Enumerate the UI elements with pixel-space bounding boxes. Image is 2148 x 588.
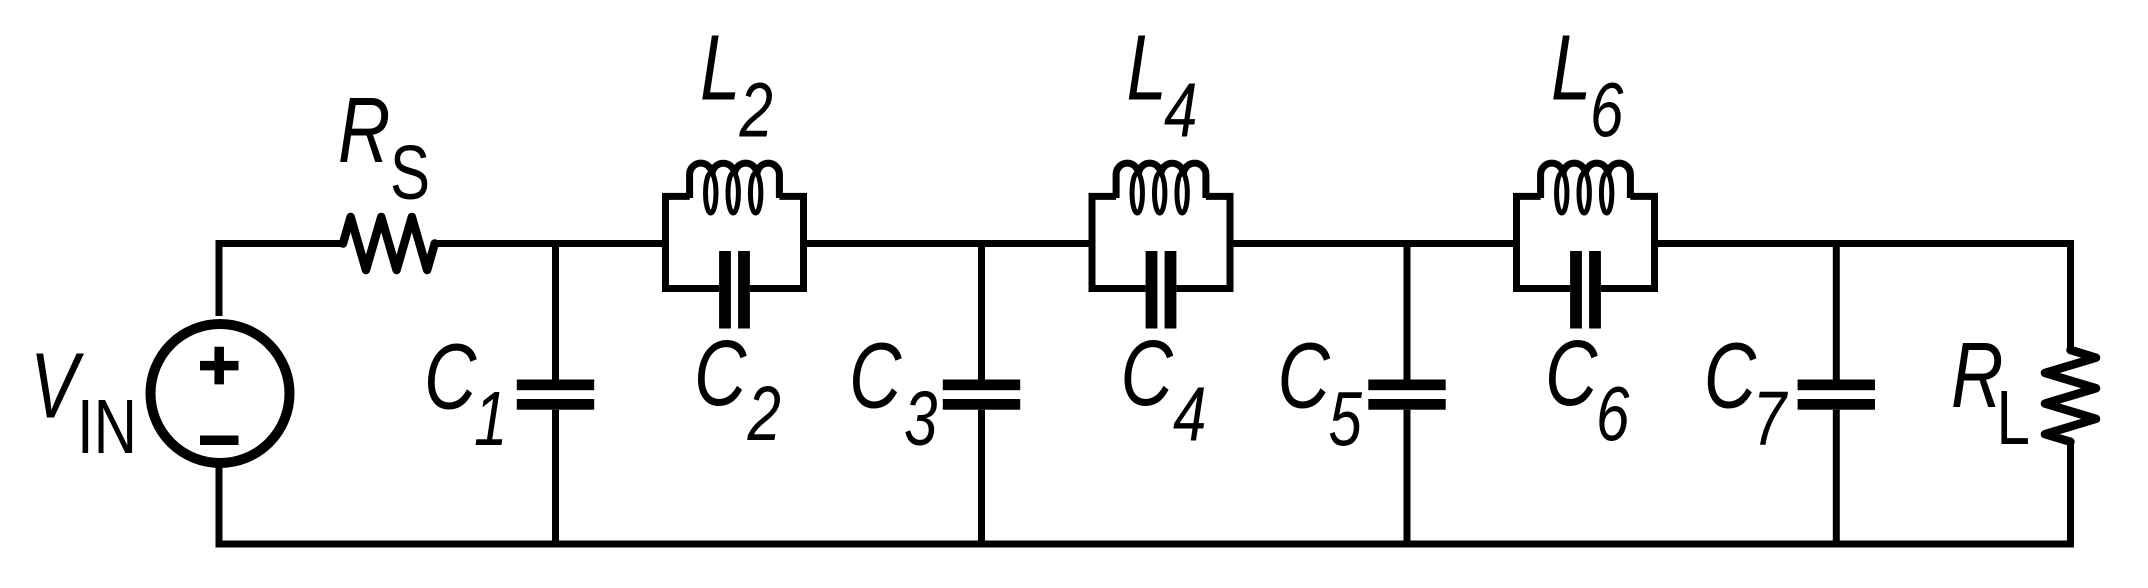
inductor L4 loop 1 (1132, 173, 1142, 213)
inductor L4 loop 2 (1155, 173, 1165, 213)
capacitor C5 plates (1368, 380, 1445, 391)
svg-text:L: L (1551, 16, 1591, 120)
wire top bus segment D (tank2 to tank3 through C5 node) (1230, 240, 1515, 247)
wire bottom bus (216, 541, 2075, 548)
wire top bus segment A (VIN to RS) (219, 244, 343, 317)
capacitor C7 plates (1798, 380, 1875, 391)
svg-text:C: C (849, 324, 902, 428)
svg-text:C: C (694, 321, 747, 425)
svg-text:7: 7 (1753, 375, 1789, 462)
svg-text:S: S (390, 129, 430, 216)
svg-text:6: 6 (1596, 370, 1630, 457)
wire right vertical lower (2067, 442, 2074, 548)
capacitor C2 plates (719, 251, 731, 329)
svg-text:C: C (1121, 321, 1174, 425)
wire top bus segment C (tank1 to tank2 through C3 node) (804, 240, 1093, 247)
capacitor C1 branch wires (552, 240, 559, 548)
svg-text:1: 1 (474, 375, 507, 462)
inductor L4 coil (1116, 163, 1206, 198)
svg-text:4: 4 (1164, 66, 1197, 153)
inductor L2 coil (690, 163, 780, 198)
svg-text:5: 5 (1329, 375, 1363, 462)
svg-text:3: 3 (904, 375, 937, 462)
wire top bus segment E (tank3 to right corner, through C7 node) (1656, 244, 2071, 351)
inductor L6 coil (1541, 163, 1631, 198)
inductor L2 loop 3 (750, 173, 760, 213)
svg-text:C: C (1704, 324, 1757, 428)
capacitor C6 plates (1570, 251, 1582, 329)
svg-text:6: 6 (1590, 66, 1624, 153)
tank1 L2/C2 box (666, 196, 804, 288)
VIN minus sign (200, 435, 239, 445)
wire top bus segment B (RS to tank1 through C1 node) (435, 240, 666, 247)
resistor RL (2045, 350, 2096, 442)
capacitor C1 plates (517, 380, 594, 391)
svg-text:R: R (338, 78, 390, 182)
capacitor C4 plates (1146, 251, 1158, 329)
svg-text:2: 2 (739, 66, 773, 153)
inductor L2 loop 2 (728, 173, 738, 213)
inductor L6 loop 1 (1557, 173, 1567, 213)
capacitor C3 branch wires (978, 240, 985, 548)
inductor L6 loop 3 (1601, 173, 1611, 213)
inductor L6 loop 2 (1579, 173, 1589, 213)
wire VIN bottom stub (216, 464, 223, 548)
svg-text:IN: IN (77, 383, 137, 470)
resistor RS (343, 217, 435, 270)
voltage source VIN circle (151, 324, 290, 463)
tank3 L6/C6 box (1517, 196, 1655, 288)
tank2 L4/C4 box (1092, 196, 1230, 288)
capacitor C3 plates (943, 380, 1020, 391)
svg-text:2: 2 (747, 370, 781, 457)
capacitor C5 branch wires (1404, 240, 1411, 548)
inductor L4 loop 3 (1177, 173, 1187, 213)
svg-text:L: L (700, 16, 740, 120)
inductor L2 loop 1 (706, 173, 716, 213)
svg-text:4: 4 (1173, 370, 1206, 457)
svg-text:C: C (424, 325, 477, 429)
svg-text:C: C (1278, 324, 1331, 428)
svg-text:L: L (1127, 16, 1167, 120)
svg-text:R: R (1951, 323, 2003, 427)
svg-text:L: L (1997, 374, 2030, 461)
capacitor C7 branch wires (1833, 240, 1840, 548)
svg-text:C: C (1545, 321, 1598, 425)
VIN plus sign (200, 347, 239, 385)
